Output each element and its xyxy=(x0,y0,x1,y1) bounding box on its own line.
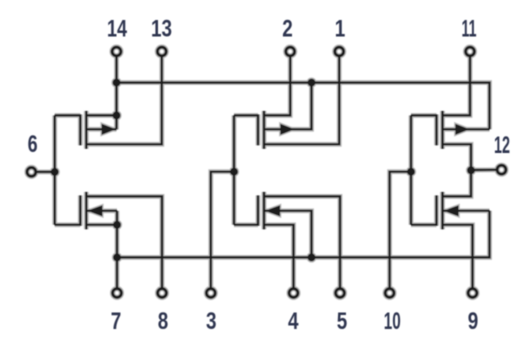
wire P1 gate lead xyxy=(55,114,81,116)
VDD rail wire (pin14 node) xyxy=(117,83,490,130)
transistor N2 drain stub to pin 5 xyxy=(264,196,340,288)
transistor P3 source stub to pin 11 xyxy=(443,56,471,115)
transistor P1 channel xyxy=(85,111,87,149)
node junction N1 source/bulk xyxy=(113,221,121,229)
pin 6 lead wire xyxy=(36,171,55,173)
pin 12 label xyxy=(494,132,510,159)
VSS rail wire (pin7 node) xyxy=(117,211,490,258)
svg-text:6: 6 xyxy=(28,131,38,158)
wire P2 gate lead xyxy=(234,114,258,116)
wire N1 gate lead xyxy=(55,224,81,226)
transistor N1 source stub xyxy=(86,224,117,226)
transistor N3 bulk stub with arrow (to VSS rail end) xyxy=(443,205,490,216)
transistor P3 drain stub to pin 12 node xyxy=(443,144,472,170)
pin 1 terminal xyxy=(335,47,344,56)
svg-text:3: 3 xyxy=(206,308,217,335)
transistor P2 source stub to pin 2 xyxy=(264,56,290,115)
transistor N3 drain stub to pin 12 node xyxy=(443,170,472,196)
pin 6 terminal xyxy=(27,168,36,177)
svg-text:9: 9 xyxy=(468,308,479,335)
pin 2 terminal xyxy=(286,47,295,56)
node junction N2 bulk on VSS rail xyxy=(308,253,316,261)
pin 7 terminal xyxy=(113,289,122,298)
svg-text:13: 13 xyxy=(151,16,172,43)
wire P3 gate lead xyxy=(411,114,437,116)
svg-text:8: 8 xyxy=(158,308,169,335)
pin 4 terminal xyxy=(289,289,298,298)
node junction pair2 gate xyxy=(230,168,238,176)
pin 9 label xyxy=(468,308,479,335)
wire pin14 to VDD rail and P1 source xyxy=(115,56,117,115)
svg-text:1: 1 xyxy=(335,16,346,43)
transistor P1 bulk stub with arrow xyxy=(86,115,116,134)
svg-text:14: 14 xyxy=(107,16,127,43)
pin 14 label xyxy=(107,16,127,43)
wire N3 gate lead xyxy=(411,224,437,226)
transistor P2 drain stub to pin 1 xyxy=(264,56,339,144)
pin 10 terminal xyxy=(385,289,394,298)
node junction pin7/VSS xyxy=(113,253,121,261)
transistor N3 (NMOS pair3) gate bar xyxy=(435,195,437,225)
transistor N2 channel xyxy=(263,192,265,229)
wire gate bus pair1 xyxy=(53,115,55,224)
node junction P2 bulk on VDD rail xyxy=(308,79,316,87)
transistor P1 (PMOS pair1) gate bar xyxy=(79,114,81,145)
node junction pin6 gate node xyxy=(51,168,59,176)
pin 3 terminal xyxy=(206,289,215,298)
transistor P2 (PMOS pair2) gate bar xyxy=(257,114,259,145)
transistor N3 channel xyxy=(441,192,443,229)
svg-text:2: 2 xyxy=(282,16,293,43)
node junction P1 source/bulk xyxy=(113,111,121,119)
transistor P3 channel xyxy=(441,111,443,149)
transistor N2 (NMOS pair2) gate bar xyxy=(257,195,259,225)
pin 5 terminal xyxy=(336,289,345,298)
pin 5 label xyxy=(337,308,348,335)
transistor N3 source stub to pin 9 xyxy=(443,225,473,289)
node junction pin14/VDD xyxy=(113,79,121,87)
wire N1 source to VSS and pin 7 xyxy=(116,225,118,289)
pin 2 label xyxy=(282,16,293,43)
transistor P3 (PMOS pair3) gate bar xyxy=(435,114,437,145)
pin 12 terminal xyxy=(497,165,506,174)
pin 6 label xyxy=(28,131,38,158)
node junction pin 12 / P3+N3 drains xyxy=(467,166,475,174)
pin 8 terminal xyxy=(158,289,167,298)
pin 8 label xyxy=(158,308,169,335)
pin 10 label xyxy=(384,308,401,335)
svg-text:11: 11 xyxy=(462,16,477,43)
pin 1 label xyxy=(335,16,346,43)
svg-text:5: 5 xyxy=(337,308,348,335)
pin 7 label xyxy=(111,308,122,335)
transistor N2 source stub to pin 4 xyxy=(264,225,294,289)
wire gate bus pair3 xyxy=(410,115,412,224)
transistor P2 bulk stub with arrow to VDD xyxy=(264,83,312,135)
svg-text:4: 4 xyxy=(288,308,299,335)
node junction pair3 gate xyxy=(407,168,415,176)
transistor N1 (NMOS pair1) gate bar xyxy=(79,195,81,225)
transistor N1 bulk stub with arrow xyxy=(86,205,117,225)
transistor P1 source stub xyxy=(86,114,116,116)
pin 14 terminal xyxy=(112,47,121,56)
pin 4 label xyxy=(288,308,299,335)
svg-text:10: 10 xyxy=(384,308,401,335)
wire gate bus pair2 xyxy=(233,115,235,224)
transistor N2 bulk stub with arrow to VSS xyxy=(264,205,312,257)
pin 11 terminal xyxy=(466,47,475,56)
wire pin 12 lead xyxy=(471,169,497,172)
svg-text:7: 7 xyxy=(111,308,122,335)
pin 3 label xyxy=(206,308,217,335)
pin 13 label xyxy=(151,16,172,43)
wire pin 3 gate node pair2 xyxy=(211,172,234,289)
svg-text:12: 12 xyxy=(494,132,510,159)
pin 9 terminal xyxy=(468,289,477,298)
schematic artwork soft underlay xyxy=(27,47,506,297)
pin 13 terminal xyxy=(157,47,166,56)
wire N2 gate lead xyxy=(234,224,258,226)
transistor P1 drain stub to pin 13 xyxy=(86,56,162,144)
pin 11 label xyxy=(462,16,477,43)
transistor P3 bulk stub with arrow (to VDD drop) xyxy=(443,124,490,135)
transistor N1 channel xyxy=(85,192,87,229)
transistor P2 channel xyxy=(263,111,265,149)
transistor N1 drain stub to pin 8 xyxy=(86,196,162,288)
wire pin 10 gate node pair3 xyxy=(390,172,411,289)
